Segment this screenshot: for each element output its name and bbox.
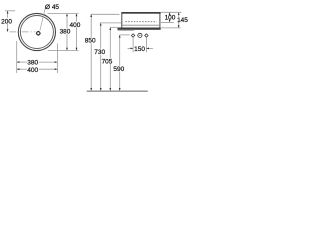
center line (horizontal, dashed) — [10, 31, 36, 33]
svg-text:400: 400 — [27, 67, 38, 74]
dim 150 line with outside arrows — [128, 47, 133, 49]
ext line slab bottom right (145) — [161, 27, 181, 29]
basin right wall — [159, 14, 161, 28]
svg-text:200: 200 — [1, 18, 12, 25]
svg-text:380: 380 — [27, 60, 38, 67]
dim 380 vertical line — [66, 14, 68, 29]
ext line rim level (850) — [91, 13, 120, 15]
dim 145 vertical line — [178, 12, 180, 17]
dim 850 vertical line — [90, 14, 92, 37]
dim 150: extension lines from symbols — [132, 38, 134, 52]
svg-text:400: 400 — [69, 22, 80, 29]
svg-text:Ø 45: Ø 45 — [45, 4, 59, 11]
svg-text:150: 150 — [134, 46, 145, 53]
outer circle (basin rim Ø400) — [18, 13, 55, 50]
leader line to Ø45 label — [40, 6, 46, 30]
right side vertical dims: top extension line — [48, 13, 79, 15]
dim 200: top extension line — [5, 10, 15, 12]
basin rim (top) — [121, 12, 160, 14]
waste outlet symbol (double circle) — [138, 33, 142, 37]
svg-text:100: 100 — [165, 15, 176, 22]
ext line inner bottom (730) — [100, 22, 122, 24]
svg-text:380: 380 — [60, 29, 71, 36]
svg-text:705: 705 — [102, 58, 113, 65]
supply fixing symbol right (diamond) — [145, 34, 148, 37]
ext line slab underside (705) — [110, 26, 117, 28]
dim 200: vertical dimension line — [7, 11, 9, 18]
drain symbol (waste Ø45) — [36, 31, 41, 36]
svg-text:145: 145 — [177, 17, 188, 24]
dim 705 vertical line — [109, 27, 111, 58]
dim 590 vertical line — [119, 35, 121, 66]
floor line — [87, 90, 148, 92]
counter slab (section bar) — [117, 28, 160, 30]
svg-text:850: 850 — [85, 38, 96, 45]
svg-text:590: 590 — [113, 66, 124, 73]
bottom dims: right extension line — [56, 44, 58, 74]
dim 400 vertical line — [76, 14, 78, 22]
supply fixing symbol left (diamond) — [131, 34, 134, 37]
dim 380 horizontal line — [17, 61, 27, 63]
hidden inner bottom (dashed) — [125, 21, 156, 23]
basin left wall — [121, 14, 123, 28]
right dims 100/145: top extension line (rim) — [161, 11, 182, 13]
slab underside shadow line — [118, 29, 134, 31]
ext line inner bottom right (100) — [161, 21, 174, 23]
basin outer bottom line — [122, 24, 160, 26]
dim 730 vertical line — [100, 23, 102, 49]
dim 400 horizontal line — [17, 68, 27, 70]
ext line connections (590) — [120, 34, 130, 36]
bottom dims: left extension line — [16, 41, 18, 73]
dim 100 vertical line — [169, 12, 171, 15]
right side vertical dims: bottom extension line — [48, 50, 79, 52]
inner circle (basin bowl Ø380) — [20, 16, 53, 49]
svg-text:730: 730 — [94, 49, 105, 56]
